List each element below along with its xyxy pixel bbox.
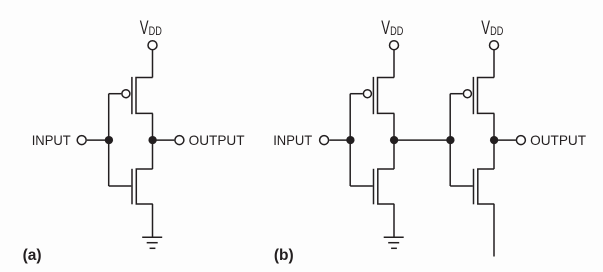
svg-text:(b): (b): [274, 247, 294, 264]
svg-text:OUTPUT: OUTPUT: [189, 132, 245, 148]
svg-text:OUTPUT: OUTPUT: [530, 132, 586, 148]
svg-text:INPUT: INPUT: [32, 132, 71, 148]
svg-text:INPUT: INPUT: [273, 132, 312, 148]
svg-text:(a): (a): [23, 247, 42, 264]
